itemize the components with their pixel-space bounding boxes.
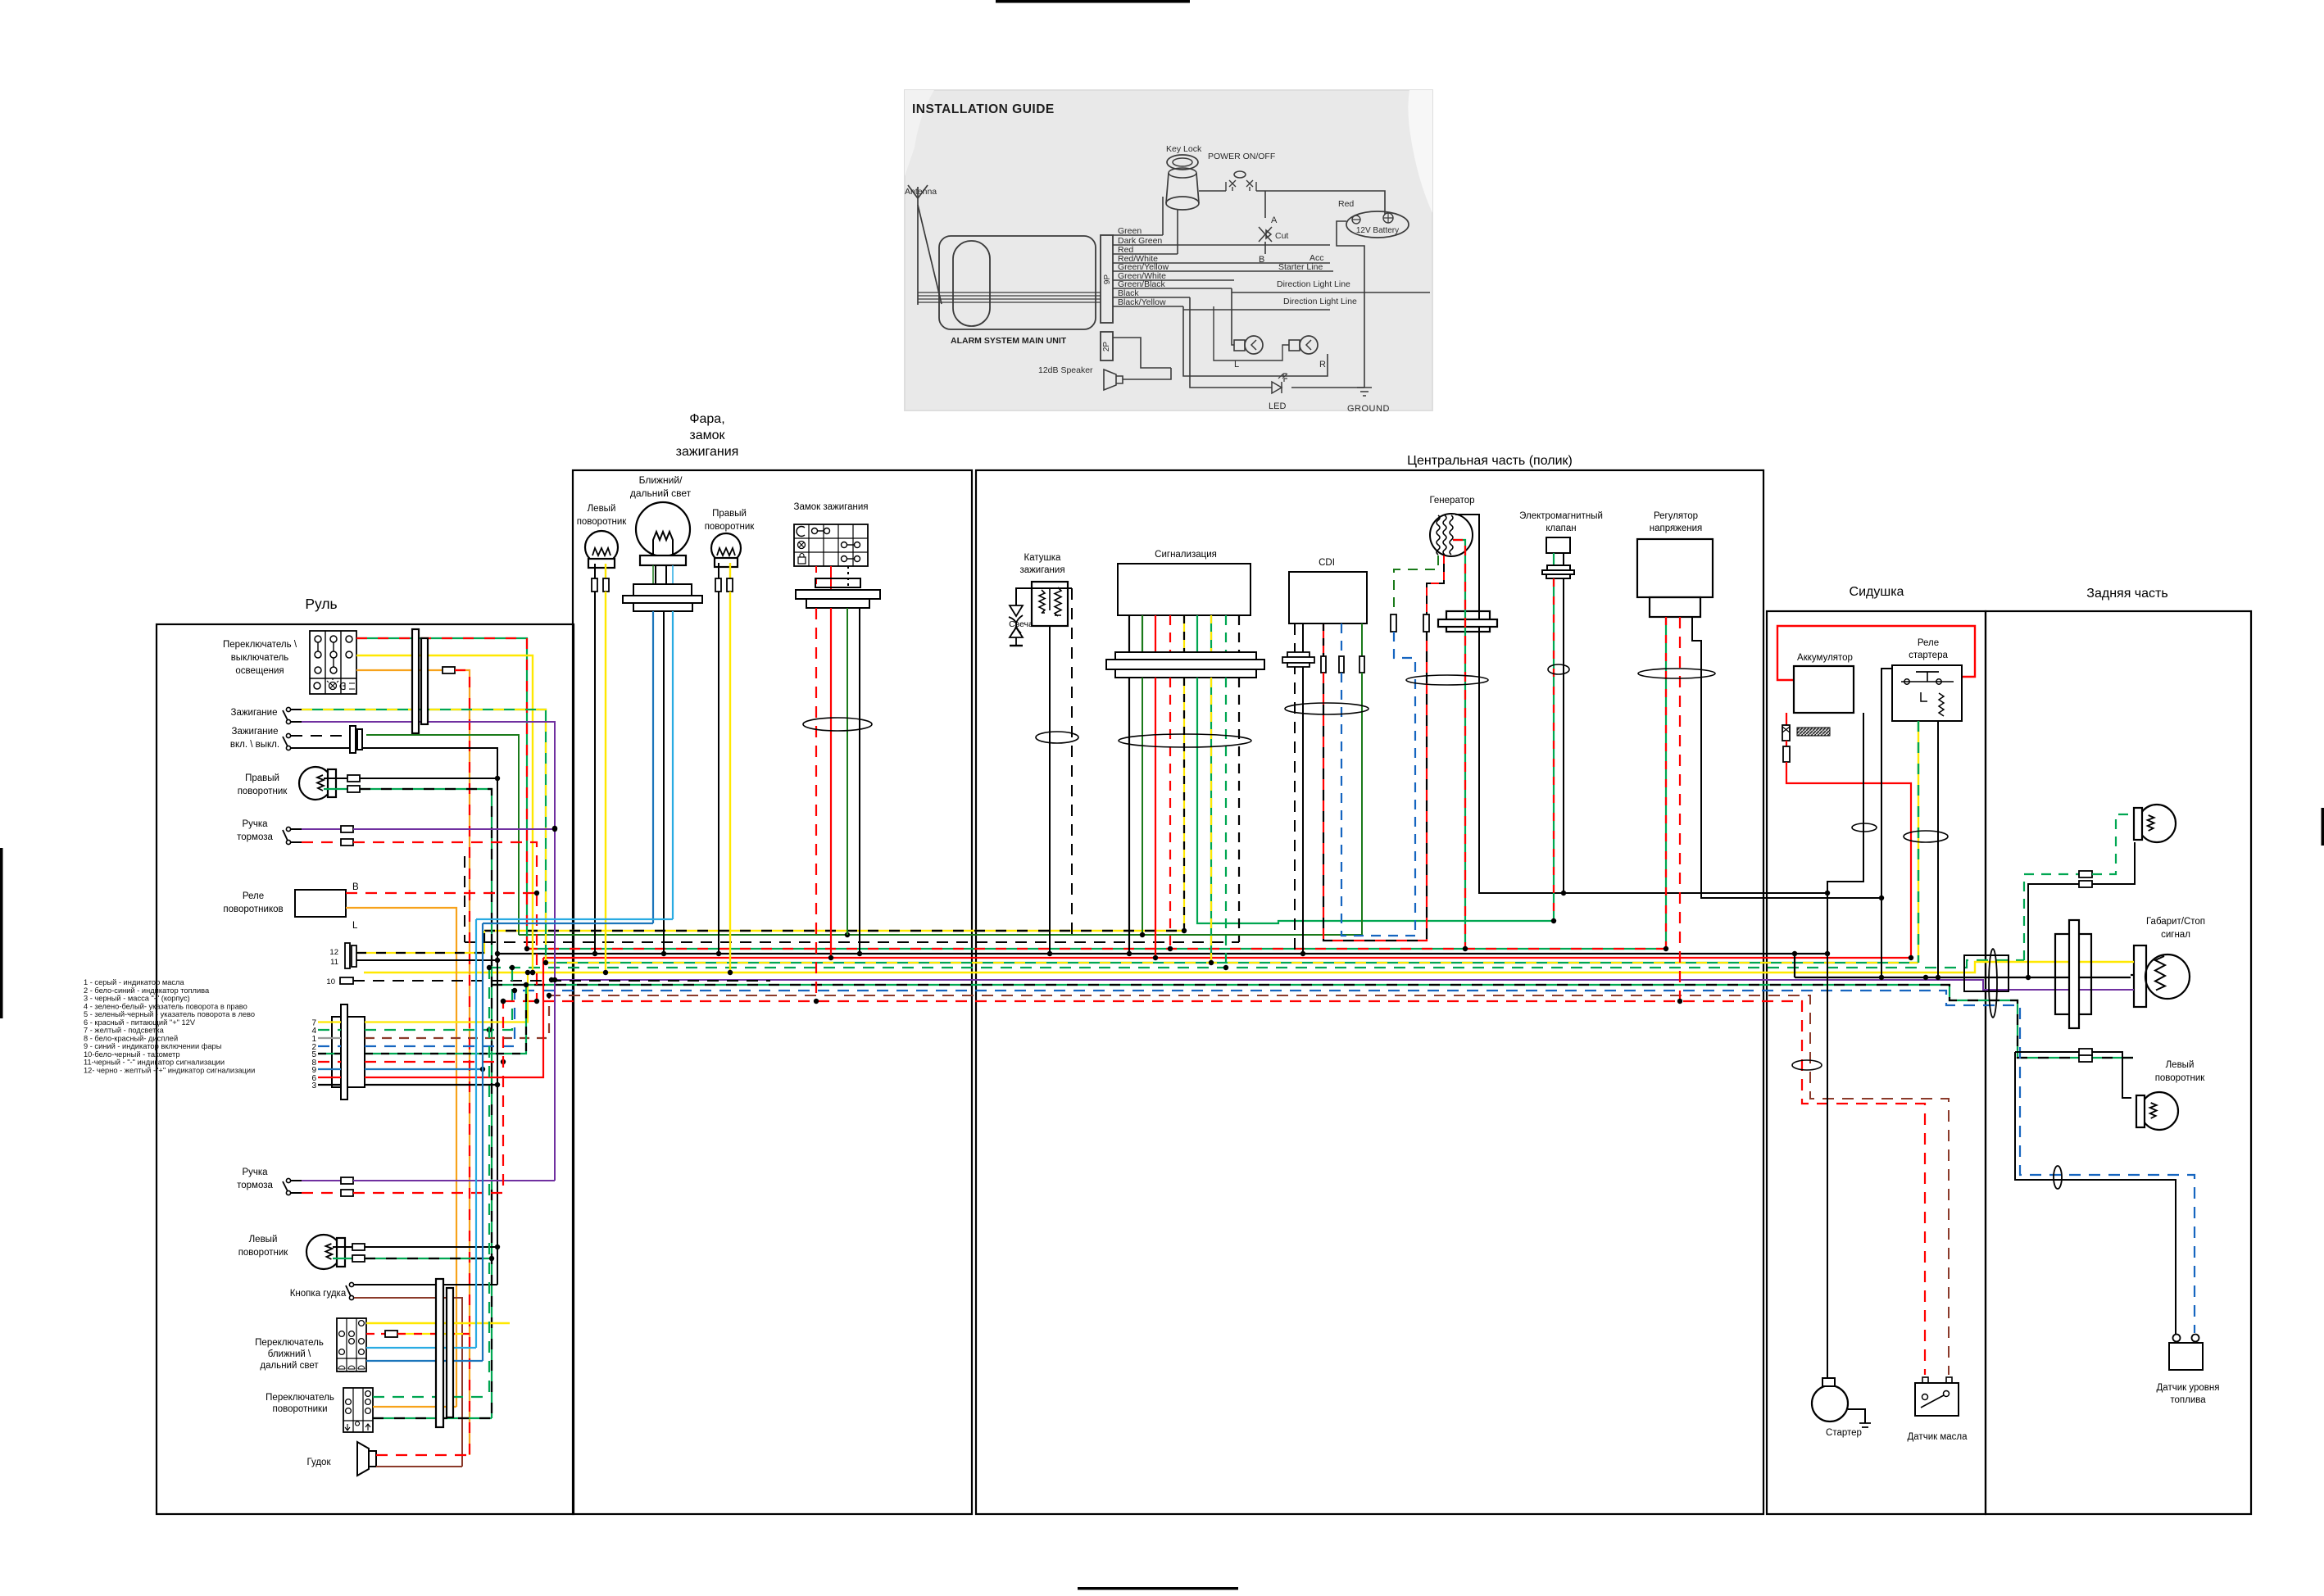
- L lamp: [1245, 336, 1263, 354]
- wire: red dashed horn: [376, 1454, 470, 1456]
- svg-text:Левый: Левый: [588, 504, 616, 514]
- lamp: левый поворотник (руль): [306, 1235, 345, 1269]
- svg-text:Сигнализация: Сигнализация: [1155, 550, 1217, 560]
- wire: pin 2 stub: [318, 1045, 341, 1047]
- svg-text:R: R: [1319, 360, 1326, 370]
- wire: black headlight: [663, 611, 665, 954]
- sensor: датчик масла: [1915, 1377, 1959, 1416]
- svg-text:Cut: Cut: [1275, 231, 1288, 241]
- svg-text:замок: замок: [689, 428, 725, 442]
- wire: purple from ignition switch: [302, 722, 555, 1181]
- svg-text:топлива: топлива: [2170, 1395, 2206, 1405]
- wire: black from right turn lamp: [360, 778, 497, 779]
- svg-text:поворотник: поворотник: [238, 1248, 289, 1258]
- svg-text:7 - желтый - подсветка: 7 - желтый - подсветка: [84, 1027, 165, 1035]
- svg-text:Гудок: Гудок: [307, 1458, 332, 1467]
- svg-text:12V Battery: 12V Battery: [1356, 226, 1399, 235]
- inline connector: [443, 667, 455, 673]
- connector: tall (lighting switch harness): [412, 629, 419, 733]
- keylock riser wires: [1162, 197, 1164, 235]
- svg-text:Габарит/Стоп: Габарит/Стоп: [2146, 917, 2205, 927]
- switch: зажигание вкл/выкл: [283, 733, 291, 750]
- lamp: [2134, 805, 2176, 842]
- svg-text:Переключатель: Переключатель: [266, 1393, 334, 1403]
- svg-text:11: 11: [330, 958, 338, 967]
- wire trunk: black-yellow (12 +indicator): [484, 930, 1184, 932]
- lamp: [2136, 1092, 2178, 1130]
- svg-text:Стартер: Стартер: [1826, 1428, 1862, 1438]
- wire: black dashed CDI: [1294, 623, 1296, 954]
- wire: green dashed generator stator: [1394, 555, 1438, 614]
- wire: green/red regulator: [1665, 617, 1667, 949]
- junction dots: [530, 970, 535, 975]
- switch: поворотники: [343, 1388, 373, 1432]
- wire: pin 2 to trunk: [365, 991, 515, 1046]
- connector: ignition on/off: [350, 726, 356, 753]
- wire: light blue vertical (headlight low beam): [475, 919, 477, 1348]
- wire: green dashed vertical: [488, 968, 490, 1397]
- inline connector: [2079, 871, 2092, 877]
- svg-text:Датчик масла: Датчик масла: [1908, 1432, 1968, 1442]
- wire: black 11: [356, 959, 497, 961]
- connector: приборная панель 9-pin: [341, 1004, 347, 1100]
- wire trunk: green/yellow (starter line): [546, 962, 1918, 963]
- wire: purple brake 2: [353, 1180, 555, 1181]
- section box: Руль: [157, 624, 574, 1514]
- wire trunk: green/red (generator feed): [527, 948, 1666, 950]
- scanned installation guide background: [905, 90, 1432, 410]
- harness oval: катушка: [1036, 732, 1078, 743]
- svg-text:поворотник: поворотник: [705, 522, 756, 532]
- wire: red dashed regulator: [1679, 617, 1681, 1001]
- svg-text:Direction Light Line: Direction Light Line: [1283, 297, 1357, 306]
- svg-text:Правый: Правый: [245, 773, 279, 783]
- inline connector: [603, 578, 609, 592]
- svg-text:поворотник: поворотник: [2155, 1073, 2206, 1083]
- wire: black ignition coil: [1049, 626, 1051, 954]
- svg-text:A: A: [1271, 215, 1278, 225]
- svg-text:GROUND: GROUND: [1347, 404, 1390, 414]
- wires to rear left turn lamp: [2015, 1051, 2079, 1053]
- svg-text:Регулятор: Регулятор: [1654, 511, 1698, 521]
- wire: blue vertical (headlight high beam): [482, 923, 483, 1361]
- wire: red ignition lock: [830, 608, 832, 958]
- svg-text:11-черный - "-" индикатор сигн: 11-черный - "-" индикатор сигнализации: [84, 1059, 225, 1067]
- svg-text:Фара,: Фара,: [689, 412, 724, 426]
- svg-text:выключатель: выключатель: [231, 653, 289, 663]
- svg-text:Генератор: Генератор: [1429, 496, 1474, 506]
- wire: black rear right turn: [2092, 842, 2135, 884]
- wire: black generator frame: [1455, 515, 1827, 893]
- svg-text:Сидушка: Сидушка: [1850, 585, 1904, 599]
- svg-text:B: B: [1259, 255, 1264, 265]
- switch: ручка тормоза 1: [283, 827, 291, 844]
- wire: black ignition lock: [859, 608, 860, 954]
- svg-text:Red: Red: [1338, 199, 1354, 209]
- svg-text:1 - серый - индикатор масла: 1 - серый - индикатор масла: [84, 978, 184, 986]
- harness oval: CDI: [1285, 703, 1369, 714]
- R lamp: [1300, 336, 1318, 354]
- wire: pin 3 to trunk: [365, 1084, 497, 1086]
- battery to ground wire: [1337, 221, 1364, 388]
- inline connector: [715, 578, 721, 592]
- wire: green/yellow from ignition: [302, 710, 546, 963]
- box: регулятор напряжения: [1637, 539, 1713, 597]
- сигнализация wires to trunk: [1128, 678, 1130, 954]
- svg-text:Правый: Правый: [712, 509, 747, 519]
- switch: ближний/дальний свет: [337, 1318, 366, 1372]
- harness oval: сигнализация: [1119, 734, 1251, 747]
- svg-text:10-бело-черный - тахометр: 10-бело-черный - тахометр: [84, 1050, 180, 1059]
- section box: Задняя часть: [1986, 611, 2251, 1514]
- inline connector: [2079, 1049, 2092, 1055]
- wire: orange relay L: [346, 908, 456, 1407]
- wire: black horn button: [354, 1284, 497, 1285]
- svg-text:сигнал: сигнал: [2161, 930, 2190, 940]
- wire: black dashed ignition coil: [1071, 588, 1073, 942]
- svg-text:12: 12: [329, 948, 338, 957]
- inline connector: [347, 775, 360, 782]
- wire switch-battery: [1256, 191, 1385, 215]
- wire: pin 8 to trunk: [365, 1061, 503, 1063]
- wire trunk: green dashed (right turn): [489, 960, 2024, 968]
- svg-text:Ручка: Ручка: [242, 1168, 268, 1177]
- LED wires: [1190, 297, 1272, 388]
- inline connector: [352, 1255, 365, 1262]
- harness oval: генератор: [1406, 675, 1488, 685]
- svg-text:8 - бело-красный- дисплей: 8 - бело-красный- дисплей: [84, 1034, 178, 1042]
- wire: yellow headlight switch: [366, 1322, 510, 1324]
- wire: black relay coil: [1937, 721, 1939, 977]
- wire: yellow right front turn: [729, 592, 731, 973]
- svg-text:Antenna: Antenna: [905, 187, 937, 197]
- fuse: [1782, 725, 1790, 741]
- generator connector flange: [1446, 611, 1490, 632]
- wire: brown horn: [376, 1466, 462, 1467]
- wire: black CDI: [1302, 623, 1304, 954]
- svg-text:2P: 2P: [1102, 342, 1111, 352]
- wire trunk: yellow (tail lamp): [364, 962, 2129, 973]
- connector: CDI blue: [1339, 656, 1344, 673]
- wire: pin 1 stub: [318, 1037, 341, 1039]
- svg-text:поворотник: поворотник: [238, 787, 288, 796]
- svg-text:Ближний/: Ближний/: [639, 474, 683, 486]
- hatched label strip: [1797, 728, 1830, 736]
- svg-text:LED: LED: [1269, 401, 1286, 411]
- wire: black from left turn lamp: [365, 1246, 497, 1248]
- wire keylock-switch: [1199, 190, 1226, 192]
- svg-text:12- черно - желтый -"+" индика: 12- черно - желтый -"+" индикатор сигнал…: [84, 1066, 255, 1074]
- section box: Сидушка: [1767, 611, 1986, 1514]
- wire: blue dashed CDI to generator: [1341, 673, 1415, 936]
- fuse 2: [1783, 746, 1790, 762]
- connector: 10: [340, 977, 353, 984]
- svg-text:5 - зеленый-черный - указатель: 5 - зеленый-черный - указатель поворота …: [84, 1010, 255, 1018]
- harness oval: battery black: [1852, 823, 1877, 832]
- svg-text:Starter Line: Starter Line: [1278, 262, 1323, 272]
- inline connector: [385, 1331, 397, 1337]
- alarm unit wires: [918, 292, 1101, 293]
- guide wires to lamps: [1232, 288, 1234, 345]
- wire: green/red from lighting switch: [356, 638, 527, 949]
- connector: generator 2: [1423, 614, 1429, 632]
- LED: [1272, 382, 1282, 393]
- svg-text:дальний свет: дальний свет: [260, 1361, 319, 1371]
- connector: CDI black pair: [1287, 652, 1310, 657]
- wire: pin 8 stub: [318, 1061, 341, 1063]
- wire trunk: black dashed: [465, 941, 1239, 943]
- connector box rear: [1964, 955, 2009, 991]
- svg-text:B: B: [352, 882, 359, 892]
- svg-text:ALARM SYSTEM MAIN UNIT: ALARM SYSTEM MAIN UNIT: [951, 336, 1067, 346]
- svg-text:POWER ON/OFF: POWER ON/OFF: [1208, 152, 1275, 161]
- wire: dark green from ignition on/off: [366, 735, 519, 935]
- svg-text:вкл. \ выкл.: вкл. \ выкл.: [230, 740, 279, 750]
- spark plug: Свеча: [1010, 605, 1023, 616]
- wire: yellow left front turn: [605, 592, 606, 973]
- right page mark: [2322, 808, 2324, 846]
- svg-text:зажигания: зажигания: [676, 445, 739, 459]
- wire trunk: red (+12V): [543, 957, 1911, 959]
- switch: зажигание: [283, 707, 291, 723]
- harness oval: датчик масла wires: [1792, 1060, 1822, 1070]
- wire: pin 1 to trunk: [365, 995, 549, 1038]
- wire trunk: green/black (left turn): [492, 985, 2133, 1058]
- top page mark: [996, 0, 1190, 3]
- harness oval: регулятор: [1638, 669, 1715, 678]
- wire: red dashed brake 2: [353, 1001, 503, 1193]
- wire: green to solenoid valve: [1197, 678, 1554, 923]
- vertical oval fuel wires: [2054, 1166, 2062, 1189]
- svg-text:зажигания: зажигания: [1019, 565, 1064, 575]
- lamp: фара ближний/дальний: [623, 502, 702, 611]
- svg-text:3: 3: [311, 1081, 316, 1090]
- relay: реле поворотников: [295, 890, 346, 917]
- box: электромагнитный клапан: [1546, 537, 1570, 553]
- svg-text:Зажигание: Зажигание: [231, 708, 278, 718]
- wire: orange/red from lighting switch: [356, 669, 443, 671]
- wire: pin 4 to trunk: [365, 968, 512, 1030]
- switch: ручка тормоза 2: [283, 1178, 291, 1195]
- wire: blue headlight: [652, 611, 654, 923]
- wire trunk: red dashed (oil sensor +): [503, 1001, 1925, 1375]
- wire: red/black CDI: [1323, 623, 1324, 656]
- switch: кнопка гудка: [346, 1282, 354, 1299]
- wire: blue dashed generator to CDI: [1394, 632, 1415, 936]
- svg-text:поворотник: поворотник: [577, 517, 628, 527]
- wire: yellow from lighting switch: [356, 655, 533, 973]
- клапан connector flange: [1547, 565, 1570, 570]
- wire trunk: dark green (ignition lock - CDI): [519, 934, 1362, 936]
- wire: black regulator: [1692, 617, 1881, 898]
- wire: dark green CDI: [1361, 623, 1363, 656]
- svg-text:дальний свет: дальний свет: [630, 487, 692, 499]
- svg-text:поворотники: поворотники: [272, 1404, 327, 1414]
- antenna: [917, 198, 919, 305]
- speaker wires: [1113, 338, 1171, 368]
- connector: 12/11: [345, 943, 350, 968]
- svg-text:2 - бело-синий - индикатор топ: 2 - бело-синий - индикатор топлива: [84, 986, 210, 995]
- svg-text:Датчик уровня: Датчик уровня: [2157, 1383, 2220, 1393]
- wire: black/red generator rotor: [1427, 555, 1444, 614]
- wire: pin 3 stub: [318, 1084, 341, 1086]
- svg-text:9P: 9P: [1103, 274, 1112, 285]
- wire: green/black turn switch: [373, 1417, 492, 1419]
- wire: green/yellow relay starter line: [1918, 721, 1919, 963]
- svg-text:тормоза: тормоза: [237, 1181, 273, 1190]
- harness oval: клапан: [1548, 664, 1569, 674]
- vertical oval rear: [1989, 949, 1997, 1018]
- svg-text:Зажигание: Зажигание: [232, 727, 279, 737]
- connector: CDI green: [1359, 656, 1364, 673]
- 9P wires: [1113, 234, 1163, 236]
- inline connector: [727, 578, 733, 592]
- svg-text:поворотников: поворотников: [223, 905, 283, 914]
- wire: red dashed ignition lock: [815, 608, 817, 1001]
- сигнализация wire drops to connector: [1128, 615, 1130, 652]
- box: CDI: [1289, 572, 1367, 623]
- 9P connector: [1101, 235, 1113, 323]
- wire: red/black CDI to generator: [1323, 632, 1427, 941]
- wire: pin 9 stub: [318, 1068, 341, 1070]
- wire: black dashed riser: [464, 856, 465, 942]
- wire: black battery plus: [1827, 713, 1863, 1378]
- wire: black relay to harness: [1881, 669, 1892, 977]
- wire trunk: black (ground): [497, 953, 1827, 954]
- wire: light blue headlight switch: [366, 1347, 476, 1349]
- svg-text:Катушка: Катушка: [1024, 553, 1061, 563]
- svg-text:Key Lock: Key Lock: [1166, 144, 1202, 154]
- wire: pin 5 to trunk: [365, 985, 526, 1054]
- wire: pin 6 to trunk: [365, 958, 543, 1077]
- svg-text:CDI: CDI: [1319, 558, 1335, 568]
- harness oval: relay pair: [1904, 831, 1948, 842]
- section box: Фара, замок зажигания: [573, 470, 972, 1514]
- svg-text:Ручка: Ручка: [242, 819, 268, 829]
- ground symbol: [1357, 388, 1372, 396]
- svg-text:4 - зелено-белый- указатель по: 4 - зелено-белый- указатель поворота в п…: [84, 1002, 247, 1010]
- wire: black right front turn: [718, 592, 719, 954]
- wire: red battery minus via fuse: [1786, 713, 1787, 725]
- connector: tall (lower harness): [436, 1279, 443, 1427]
- inline connector: [2079, 1055, 2092, 1062]
- svg-text:Black/Yellow: Black/Yellow: [1118, 297, 1166, 307]
- sensor: датчик уровня топлива: [2169, 1343, 2203, 1370]
- svg-text:Green: Green: [1118, 226, 1142, 236]
- wire: pin 7 to trunk: [365, 973, 528, 1022]
- inline connector: [347, 786, 360, 792]
- svg-text:Центральная часть (полик): Центральная часть (полик): [1407, 454, 1573, 468]
- inline connector: [341, 1177, 353, 1184]
- wire: black lower (tail lamp ground): [1795, 977, 2131, 978]
- left page mark: [0, 848, 3, 1018]
- switch: замок зажигания grid: [794, 524, 868, 566]
- svg-text:INSTALLATION GUIDE: INSTALLATION GUIDE: [912, 102, 1055, 116]
- key lock: [1167, 155, 1198, 170]
- сигнализация connector flange: [1115, 652, 1256, 660]
- harness oval: замок зажигания: [803, 718, 872, 731]
- svg-text:10: 10: [326, 977, 335, 986]
- wire: red dashed brake 1: [353, 842, 537, 1001]
- wire: black-yellow 12: [356, 931, 484, 953]
- svg-text:L: L: [1234, 360, 1239, 370]
- wire: green/red solenoid valve: [1553, 578, 1555, 921]
- connector: CDI red: [1321, 656, 1326, 673]
- wire: black left front turn: [594, 592, 596, 954]
- wire: blue headlight switch: [366, 1360, 483, 1362]
- wire: green/black from left turn lamp: [365, 1258, 492, 1259]
- inline connector: [2079, 881, 2092, 887]
- svg-text:Левый: Левый: [2166, 1060, 2195, 1070]
- wire: red battery loop: [1777, 626, 1975, 680]
- svg-text:Переключатель \: Переключатель \: [223, 640, 297, 650]
- wire: black solenoid valve: [1563, 578, 1564, 893]
- cut switch branch: [1264, 191, 1266, 218]
- svg-text:Аккумулятор: Аккумулятор: [1797, 653, 1853, 663]
- relay: реле стартера: [1892, 665, 1962, 721]
- svg-text:Реле: Реле: [1918, 638, 1939, 648]
- generator: [1430, 514, 1473, 556]
- wire: green/black from right turn lamp: [360, 789, 492, 1418]
- wire: black dashed 10 (tachometer): [353, 980, 770, 982]
- wire: light blue headlight: [672, 611, 674, 919]
- spark plug branch: [1015, 587, 1072, 589]
- wire: red/yellow headlight switch: [366, 1333, 385, 1335]
- wire trunk: brown dashed (oil sensor): [549, 995, 1949, 1375]
- lamp: правый поворотник (руль): [299, 767, 336, 800]
- bottom page mark: [1078, 1587, 1238, 1590]
- svg-text:Руль: Руль: [305, 596, 337, 612]
- wire: pin 7 stub: [318, 1021, 341, 1022]
- wire: starter ground: [1848, 1409, 1865, 1423]
- wire: dark green ignition lock: [847, 608, 848, 935]
- ignition coil box: [1032, 582, 1068, 626]
- svg-text:ближний \: ближний \: [268, 1349, 311, 1359]
- svg-text:Замок зажигания: Замок зажигания: [794, 502, 869, 512]
- wire: red dashed relay B: [346, 892, 537, 894]
- lamp: правый поворотник (фара): [711, 533, 741, 567]
- svg-text:Переключатель: Переключатель: [255, 1338, 324, 1348]
- wire trunk: purple (brake lamp): [555, 980, 2129, 990]
- wire: black to fuel sensor: [2015, 1052, 2176, 1333]
- inline connector: [352, 1244, 365, 1250]
- alarm system main unit box: [939, 236, 1096, 329]
- inline connector: [341, 839, 353, 846]
- svg-text:Свеча: Свеча: [1009, 619, 1033, 629]
- wire trunk: blue dashed (fuel sensor): [523, 991, 2195, 1333]
- svg-text:12dB Speaker: 12dB Speaker: [1038, 365, 1093, 375]
- box: Сигнализация: [1118, 564, 1251, 615]
- svg-text:стартера: стартера: [1909, 651, 1948, 660]
- wire: black from ignition on/off: [291, 748, 497, 1285]
- svg-text:напряжения: напряжения: [1650, 524, 1703, 533]
- box: регулятор lower: [1650, 597, 1700, 617]
- box: аккумулятор: [1794, 666, 1854, 713]
- svg-text:Электромагнитный: Электромагнитный: [1519, 511, 1603, 521]
- wire: pin 6 stub: [318, 1077, 341, 1078]
- lamp: габарит/стоп: [2134, 945, 2146, 1007]
- wire: purple brake 1: [353, 828, 555, 830]
- wire: brown horn button: [354, 1298, 462, 1467]
- lamp: левый поворотник (фара): [585, 531, 618, 568]
- svg-text:тормоза: тормоза: [237, 832, 273, 842]
- inline connector: [341, 826, 353, 832]
- motor: стартер: [1812, 1385, 1848, 1421]
- inline connector: [592, 578, 597, 592]
- wire: green dashed turn switch: [373, 1396, 489, 1398]
- connector: generator 1: [1391, 614, 1396, 632]
- connector: rear tall: [2055, 934, 2091, 1014]
